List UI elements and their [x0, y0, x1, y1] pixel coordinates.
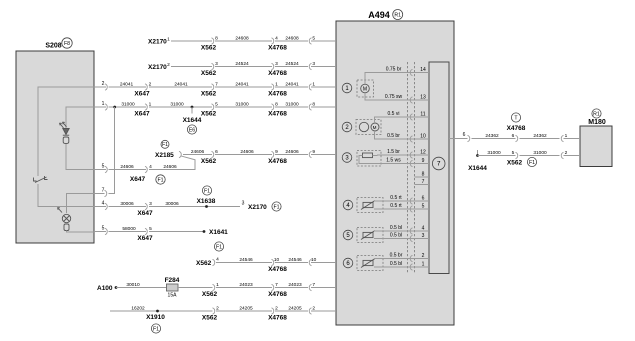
pin 4 stub of A494 strip: [404, 230, 429, 232]
svg-text:24524: 24524: [285, 61, 299, 67]
wire 24546: [216, 262, 272, 264]
circled ref T: [511, 113, 520, 122]
wire 0.5 bl (bottom of 5): [374, 238, 404, 240]
control unit A494 box: [336, 21, 454, 325]
dashed connector column inside A494: [408, 62, 415, 274]
svg-text:X1641: X1641: [209, 229, 228, 236]
svg-text:24606: 24606: [191, 149, 205, 155]
svg-text:30006: 30006: [165, 201, 179, 207]
svg-text:24023: 24023: [239, 282, 253, 288]
svg-text:X1910: X1910: [146, 314, 165, 321]
S208 pin 2 connector: [105, 84, 107, 90]
svg-text:0.5 rt: 0.5 rt: [390, 203, 402, 209]
wire X2185 to X562: [183, 154, 212, 156]
svg-text:31000: 31000: [170, 102, 184, 108]
connector X647 pin 2: [145, 84, 147, 90]
wire 24606 feed seg1: [94, 169, 106, 171]
wire 31000 seg2: [149, 106, 212, 108]
svg-text:1: 1: [167, 36, 170, 42]
svg-text:24041: 24041: [235, 82, 249, 88]
pin 1 stub of A494 strip: [404, 266, 429, 268]
A494 entry connector pin 1: [309, 84, 311, 90]
wire into M180 pin2: [564, 155, 581, 157]
connector X562 pin 4 row9: [213, 259, 215, 265]
switch unit S208 box: [16, 51, 94, 243]
svg-text:X647: X647: [137, 235, 153, 242]
circled ref R1 (A494): [393, 10, 403, 20]
connector X562 pin 1: [213, 284, 215, 290]
svg-text:1.5 ws: 1.5 ws: [386, 158, 401, 164]
svg-text:X1644: X1644: [183, 117, 202, 124]
pin 3 connector arc: [410, 235, 412, 241]
svg-text:0.75 br: 0.75 br: [386, 67, 402, 73]
pin 9 connector arc: [410, 160, 412, 166]
svg-text:14: 14: [420, 67, 426, 73]
svg-text:5: 5: [422, 204, 425, 210]
svg-text:15A: 15A: [168, 293, 178, 299]
wire 24606 feed seg2 + riser to X2185: [149, 156, 195, 170]
svg-text:A100: A100: [97, 285, 113, 292]
svg-text:4: 4: [422, 226, 425, 232]
svg-text:1: 1: [102, 101, 105, 107]
circled ref R1 (M180): [592, 109, 601, 118]
junction on 31000 row: [113, 106, 116, 109]
wire row9 into A494: [311, 262, 336, 264]
pin 5 connector arc: [410, 206, 412, 212]
circled ref F1 (X2185): [161, 140, 169, 148]
connector X647 pin 5: [145, 228, 147, 234]
svg-text:F284: F284: [165, 277, 180, 284]
svg-text:24606: 24606: [120, 164, 134, 170]
svg-text:M: M: [373, 125, 377, 130]
pin 5 stub of A494 strip: [404, 208, 429, 210]
svg-text:M180: M180: [588, 119, 606, 126]
S208 pin 6 connector: [105, 228, 107, 234]
svg-text:X562: X562: [201, 44, 217, 51]
svg-text:X4768: X4768: [268, 291, 287, 298]
pin 3 stub of A494 strip: [404, 238, 429, 240]
svg-text:X1638: X1638: [197, 198, 216, 205]
connector X647 pin 1: [145, 104, 147, 110]
svg-text:16202: 16202: [131, 306, 145, 312]
pin 10 connector arc: [410, 136, 412, 142]
wire 0.5 rt (bottom of 4): [374, 208, 404, 210]
wire row10 into A494: [311, 287, 336, 289]
svg-text:58000: 58000: [122, 226, 136, 232]
svg-text:4: 4: [102, 201, 105, 207]
wire fuse to X562: [178, 287, 213, 289]
wire 24205: [216, 310, 272, 312]
connector X4768 pin 8: [272, 104, 274, 110]
S208 internal wire pin2 to switch: [38, 87, 94, 176]
pin 10 stub of A494 strip: [404, 138, 429, 140]
pin 2 stub of A494 strip: [404, 258, 429, 260]
A494 entry connector pin 8: [309, 104, 311, 110]
svg-text:0.5 vi: 0.5 vi: [388, 111, 400, 117]
wire row2 left: [171, 66, 212, 68]
wire 1.5 br to pin 12: [373, 154, 405, 156]
wire 31000 right: [478, 155, 516, 157]
connector X562 pin 2: [213, 308, 215, 314]
wire 58000 seg1: [94, 231, 106, 233]
wire row5 into A494: [311, 154, 336, 156]
pin 12 stub of A494 strip: [404, 154, 429, 156]
svg-text:24023: 24023: [288, 282, 302, 288]
wire 30006 seg2: [149, 206, 240, 208]
circled ref F1 (X647 row5): [156, 175, 165, 184]
svg-text:F1: F1: [153, 326, 159, 332]
connector X647 pin 3: [145, 203, 147, 209]
svg-text:X4768: X4768: [268, 44, 287, 51]
S208 pin 5 connector: [105, 166, 107, 172]
pump/motor symbol component 2: [356, 120, 381, 135]
A494 entry connector pin 3: [309, 63, 311, 69]
svg-text:F1: F1: [273, 204, 279, 210]
svg-text:30010: 30010: [126, 282, 140, 288]
wire 0.5 br (top of 6): [374, 258, 404, 260]
svg-text:4: 4: [216, 256, 219, 262]
svg-text:5: 5: [102, 226, 105, 232]
svg-text:31000: 31000: [235, 102, 249, 108]
wire 0.75 sw to pin 13: [365, 93, 404, 100]
wire 24362 b: [520, 138, 560, 140]
svg-text:X562: X562: [196, 260, 212, 267]
circled ref F1 (X1910): [151, 324, 160, 333]
wire row1 left: [171, 40, 212, 42]
svg-text:0.5 bl: 0.5 bl: [390, 225, 402, 231]
wire 24362: [472, 138, 516, 140]
svg-text:X2170: X2170: [148, 38, 167, 45]
connector X4768 pin 10: [272, 259, 274, 265]
wire 24041 seg2: [149, 86, 212, 88]
wire 24606 seg2: [215, 154, 272, 156]
svg-text:2: 2: [167, 62, 170, 68]
pin 1 connector arc: [410, 264, 412, 270]
svg-text:X562: X562: [201, 158, 217, 165]
svg-text:24606: 24606: [240, 149, 254, 155]
svg-text:7: 7: [102, 188, 105, 194]
svg-text:F1: F1: [529, 160, 535, 166]
connector X4768 pin 1: [272, 84, 274, 90]
circled item 2: [342, 122, 352, 132]
svg-text:24362: 24362: [485, 133, 499, 139]
svg-text:X4768: X4768: [268, 314, 287, 321]
wire 24041 seg3: [215, 86, 272, 88]
svg-text:31000: 31000: [487, 150, 501, 156]
svg-text:X647: X647: [137, 210, 153, 217]
connector X562 pin 5: [212, 104, 214, 110]
svg-text:X1644: X1644: [468, 165, 487, 172]
svg-text:X4768: X4768: [268, 266, 287, 273]
terminal X1641 dot: [203, 230, 206, 233]
svg-text:0.75 sw: 0.75 sw: [385, 94, 403, 100]
circled ref F1 (X1641): [214, 242, 223, 251]
A494 entry connector pin 10: [309, 259, 311, 265]
circled ref E6: [187, 125, 196, 134]
connector at A494 right: [468, 135, 470, 141]
LED D1 inside S208: [60, 122, 70, 143]
wire row11 into A494: [311, 310, 336, 312]
wire row2 into A494: [311, 66, 336, 68]
heater resistor symbol component 3: [357, 151, 381, 167]
A494 entry connector pin 5: [309, 38, 311, 44]
wire 0.75 br to pin 14: [365, 73, 404, 85]
svg-text:6: 6: [512, 133, 515, 139]
ground bus vertical to pin7 row: [109, 107, 115, 194]
svg-text:24546: 24546: [288, 257, 302, 263]
svg-text:1.5 br: 1.5 br: [387, 149, 400, 155]
A100 tap dot: [115, 286, 118, 289]
M180 entry connector pin 1: [561, 135, 563, 141]
svg-text:24362: 24362: [533, 133, 547, 139]
motor symbol component 1: [357, 80, 374, 97]
circled ref F8: [62, 38, 72, 48]
wire 30010: [116, 287, 166, 289]
pin 2 connector arc: [410, 255, 412, 261]
svg-text:2: 2: [565, 150, 568, 156]
wire 24524 b: [275, 66, 308, 68]
svg-text:5: 5: [512, 150, 515, 156]
temperature sensor symbol component 4: [357, 198, 383, 213]
wire 24608: [215, 40, 272, 42]
circled item 1: [342, 83, 352, 93]
wire 30006 seg1: [94, 206, 106, 208]
circled ref F1 (X562 right): [527, 157, 536, 166]
svg-text:24041: 24041: [120, 82, 134, 88]
svg-text:1: 1: [422, 262, 425, 268]
svg-text:8: 8: [422, 172, 425, 178]
svg-text:0.5 br: 0.5 br: [387, 133, 400, 139]
svg-text:24608: 24608: [235, 36, 249, 42]
connector X4768 pin 6 right: [516, 135, 518, 141]
A494 entry connector pin 7: [309, 284, 311, 290]
wire row4 into A494: [311, 106, 336, 108]
svg-text:6: 6: [463, 132, 466, 138]
connector X4768 pin 9: [272, 151, 274, 157]
svg-text:3: 3: [242, 200, 245, 206]
pin 14 stub of A494 strip: [404, 72, 429, 74]
svg-text:1: 1: [565, 133, 568, 139]
svg-text:24041: 24041: [285, 82, 299, 88]
pin 11 connector arc: [410, 114, 412, 120]
pin 13 connector arc: [410, 97, 412, 103]
internal connector strip of A494: [429, 62, 449, 274]
svg-text:X562: X562: [201, 90, 217, 97]
svg-text:7: 7: [422, 179, 425, 185]
svg-text:12: 12: [420, 150, 426, 156]
motor unit M180 box: [580, 126, 612, 167]
wire row1 into A494: [311, 40, 336, 42]
splice X1638 dot: [205, 205, 208, 208]
wire 24041 seg4: [275, 86, 308, 88]
svg-text:X647: X647: [134, 110, 150, 117]
S208 pin 7 connector: [105, 190, 107, 196]
svg-text:31000: 31000: [285, 102, 299, 108]
splice X1644 right dot: [476, 154, 479, 157]
svg-text:7: 7: [437, 160, 441, 167]
connector X562 pin 7: [212, 84, 214, 90]
wire 0.5 vi to pin 11: [375, 117, 405, 123]
svg-text:24608: 24608: [285, 36, 299, 42]
connector X4768 pin 2: [272, 308, 274, 314]
wire 24524: [215, 66, 272, 68]
A494 entry connector pin 9: [309, 151, 311, 157]
pin 11 stub of A494 strip: [404, 116, 429, 118]
svg-text:24205: 24205: [288, 306, 302, 312]
circled item 3: [342, 153, 352, 163]
wire 24041 seg1: [94, 86, 106, 88]
wire 16202: [110, 310, 213, 312]
pin 12 connector arc: [410, 152, 412, 158]
svg-text:0.5 rt: 0.5 rt: [390, 195, 402, 201]
svg-text:31000: 31000: [533, 150, 547, 156]
S208 pin 4 connector: [105, 203, 107, 209]
connector X562 pin 8: [212, 38, 214, 44]
wire pin7 stub: [94, 193, 105, 195]
svg-text:31000: 31000: [121, 102, 135, 108]
pin 14 connector arc: [410, 69, 412, 75]
svg-text:X2185: X2185: [155, 152, 174, 159]
svg-text:X2170: X2170: [148, 64, 167, 71]
svg-text:X4768: X4768: [268, 158, 287, 165]
splice X1644: [191, 106, 194, 109]
pin 9 stub of A494 strip: [404, 163, 429, 165]
wire row3 into A494: [311, 86, 336, 88]
svg-text:F1: F1: [216, 244, 222, 250]
wire 1.5 ws to pin 9: [359, 155, 404, 163]
svg-text:X647: X647: [134, 90, 150, 97]
svg-text:X562: X562: [202, 291, 218, 298]
spare pin 7 stub: [415, 184, 430, 186]
connector X562 pin 3: [212, 63, 214, 69]
wire strip to A494 right edge: [449, 138, 468, 140]
circled item 4: [343, 200, 353, 210]
svg-text:X4768: X4768: [268, 90, 287, 97]
wire 0.5 bl (top of 5): [374, 230, 404, 232]
svg-text:11: 11: [420, 112, 425, 118]
svg-text:X4768: X4768: [268, 110, 287, 117]
svg-text:X2170: X2170: [248, 204, 267, 211]
svg-text:30006: 30006: [120, 201, 134, 207]
wire 0.5 rt (top of 4): [374, 200, 404, 202]
circled item 5: [343, 230, 353, 240]
svg-text:24606: 24606: [285, 149, 299, 155]
svg-text:10: 10: [420, 134, 426, 140]
pin 6 stub of A494 strip: [404, 200, 429, 202]
wire into M180 pin1: [564, 138, 581, 140]
svg-text:M: M: [363, 87, 367, 93]
svg-text:F1: F1: [204, 188, 210, 194]
wire 0.5 br to pin 10: [375, 131, 405, 139]
wire 24205 b: [275, 310, 308, 312]
svg-text:13: 13: [420, 95, 426, 101]
temperature sensor symbol component 6: [357, 256, 383, 271]
svg-text:0.5 bl: 0.5 bl: [390, 261, 402, 267]
svg-text:X647: X647: [130, 176, 146, 183]
connector X562 pin 5 right: [516, 152, 518, 158]
connector X4768 pin 4: [272, 38, 274, 44]
svg-text:2: 2: [422, 253, 425, 259]
pin 4 connector arc: [410, 228, 412, 234]
svg-text:24606: 24606: [163, 164, 177, 170]
connector X4768 pin 7: [272, 284, 274, 290]
svg-text:R1: R1: [593, 111, 600, 117]
connector X647 pin 4: [145, 166, 147, 172]
svg-text:2: 2: [102, 81, 105, 87]
circled pin group 7: [432, 157, 445, 170]
svg-text:A494: A494: [368, 10, 390, 20]
svg-text:F8: F8: [64, 41, 70, 47]
wire 58000 seg2: [149, 231, 204, 233]
svg-text:3: 3: [422, 233, 425, 239]
S208 internal wire LED to pin5: [66, 143, 94, 169]
M180 entry connector pin 2: [561, 152, 563, 158]
splice X1910 dot: [156, 310, 159, 313]
illumination bulb inside S208: [58, 208, 71, 231]
S208 internal wire pin1 to LED: [66, 107, 94, 129]
wire 31000 right b: [520, 155, 560, 157]
wire 24023: [216, 287, 272, 289]
wire 31000 seg1: [94, 106, 106, 108]
svg-text:5: 5: [102, 164, 105, 170]
wire 31000 seg4: [275, 106, 308, 108]
circled ref F1 (X2170 row7): [272, 202, 281, 211]
svg-text:9: 9: [422, 158, 425, 164]
svg-text:X562: X562: [202, 314, 218, 321]
pin 6 connector arc: [410, 198, 412, 204]
circled item 6: [343, 258, 353, 268]
svg-text:6: 6: [422, 196, 425, 202]
wire 0.5 bl (bottom of 6): [374, 266, 404, 268]
switch contact inside S208: [34, 176, 48, 183]
S208 internal wire switch to pin4: [38, 184, 94, 207]
svg-text:X562: X562: [201, 110, 217, 117]
svg-text:24546: 24546: [239, 257, 253, 263]
S208 internal wire pin7 to bulb: [67, 194, 95, 214]
S208 internal wire bulb to pin6: [67, 231, 95, 233]
svg-text:0.5 bl: 0.5 bl: [390, 233, 402, 239]
svg-text:0.5 br: 0.5 br: [390, 253, 403, 259]
wire 24023 b: [275, 287, 308, 289]
S208 pin 1 connector: [105, 104, 107, 110]
splice X1644 (right): [477, 150, 479, 156]
temperature sensor symbol component 5: [357, 228, 383, 243]
svg-text:R1: R1: [394, 12, 401, 18]
connector X562 pin 6: [212, 151, 214, 157]
svg-text:24041: 24041: [174, 82, 188, 88]
svg-text:F1: F1: [157, 177, 163, 183]
splice X2185 connector: [179, 151, 181, 157]
svg-text:24524: 24524: [235, 61, 249, 67]
svg-text:X4768: X4768: [507, 125, 526, 132]
svg-text:S208: S208: [45, 43, 61, 50]
pin 13 stub of A494 strip: [404, 99, 429, 101]
circled ref F1 (X1638): [202, 186, 211, 195]
wire 24546 b: [275, 262, 308, 264]
wire 24608 b: [275, 40, 308, 42]
A494 entry connector pin 2: [309, 308, 311, 314]
svg-text:X562: X562: [201, 70, 217, 77]
spare pin 8 stub: [415, 176, 430, 178]
connector X4768 pin 3: [272, 63, 274, 69]
svg-text:F1: F1: [162, 142, 168, 148]
wire 24606 seg3: [275, 154, 308, 156]
svg-text:24205: 24205: [239, 306, 253, 312]
svg-text:X562: X562: [507, 160, 523, 167]
svg-text:X4768: X4768: [268, 70, 287, 77]
wire 31000 seg3: [215, 106, 272, 108]
svg-text:E6: E6: [189, 127, 195, 133]
